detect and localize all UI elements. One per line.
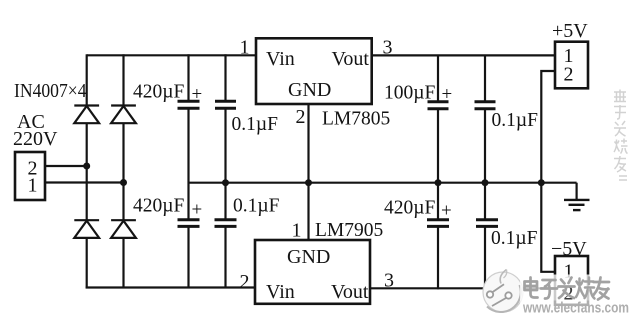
diode D1 [74, 106, 99, 124]
svg-text:0.1µF: 0.1µF [232, 114, 279, 135]
svg-text:1: 1 [240, 37, 250, 59]
svg-text:1: 1 [28, 175, 38, 197]
capacitor C5 100uF plates [428, 102, 449, 109]
wire column C6 lower [484, 227, 486, 290]
capacitor C8 0.1uF bottom-right plates [476, 220, 498, 227]
wire column C5 middle [437, 109, 439, 220]
wire column D1 middle [86, 123, 88, 221]
wire column D2 upper [122, 54, 124, 106]
svg-text:420µF: 420µF [133, 82, 184, 103]
svg-text:www.elecfans.com: www.elecfans.com [522, 300, 629, 317]
watermark chinese char you [594, 278, 610, 300]
wire column C1 middle [187, 109, 189, 220]
svg-text:100µF: 100µF [384, 83, 435, 104]
svg-text:3: 3 [384, 270, 394, 292]
wire column C1 lower [187, 227, 189, 289]
svg-text:+: + [442, 84, 453, 105]
wire top rail right [372, 54, 555, 56]
junction dot C5 / ground rail [435, 179, 442, 186]
svg-text:LM7905: LM7905 [315, 220, 383, 241]
connector J2 +5V box [555, 42, 588, 89]
svg-text:−5V: −5V [551, 238, 587, 260]
wire column C6 middle [484, 109, 486, 220]
wire bottom rail right [370, 287, 555, 289]
wire ground column to -5V pin1 [541, 183, 555, 272]
svg-text:+: + [441, 201, 452, 222]
wire GND pins column [307, 104, 309, 240]
wire column C2 upper [224, 54, 226, 101]
wire column D2 lower [122, 239, 124, 289]
connector J3 -5V box [555, 256, 588, 305]
watermark logo circle [483, 270, 523, 313]
diode D3 [74, 220, 99, 238]
svg-text:220V: 220V [13, 128, 58, 150]
svg-text:+5V: +5V [552, 20, 588, 42]
diode D4 [111, 220, 136, 238]
svg-text:Vin: Vin [266, 281, 295, 303]
watermark chinese char fa [559, 278, 575, 299]
svg-text:+: + [192, 200, 203, 221]
svg-text:3: 3 [383, 37, 393, 59]
connector J1 AC box [15, 152, 45, 200]
svg-text:Vout: Vout [332, 48, 370, 70]
capacitor C2 0.1uF top plates [215, 101, 236, 108]
svg-text:420µF: 420µF [384, 198, 435, 219]
wire column D2 middle [122, 123, 124, 221]
svg-text:Vout: Vout [331, 281, 369, 303]
wire column C2 lower [224, 227, 226, 289]
capacitor C7 420uF bottom-right plates [427, 220, 449, 227]
wire ground drop [575, 183, 577, 200]
regulator U1 LM7805 box [256, 38, 372, 104]
wire column D1 lower [86, 239, 88, 289]
wire column C5 upper [437, 55, 439, 101]
watermark text backing [520, 275, 617, 301]
svg-text:IN4007×4: IN4007×4 [14, 81, 87, 102]
svg-text:1: 1 [292, 220, 302, 242]
svg-text:LM7805: LM7805 [322, 109, 390, 130]
capacitor C3 420uF bottom plates [178, 220, 200, 227]
capacitor C4 0.1uF bottom plates [215, 220, 237, 227]
junction dot C6 / ground rail [482, 179, 489, 186]
wire AC pin1 [45, 181, 124, 183]
junction dot AC pin2 / D1 column [83, 163, 90, 170]
junction dot GND pins / ground rail [305, 179, 312, 186]
svg-text:2: 2 [564, 64, 574, 86]
wire +5V pin2 to ground column [541, 71, 555, 183]
wire column C1 upper [187, 54, 189, 101]
wire column C5 lower [437, 227, 439, 290]
watermark chinese char zi [541, 280, 557, 299]
svg-text:0.1µF: 0.1µF [491, 228, 538, 249]
svg-text:GND: GND [288, 79, 331, 101]
capacitor C6 0.1uF top-right plates [475, 102, 496, 109]
wire ground rail [189, 182, 577, 184]
wire AC pin2 [45, 165, 87, 167]
regulator U2 LM7905 box [255, 240, 370, 304]
ground symbol [564, 200, 590, 210]
diode D2 [111, 106, 136, 124]
wire top rail left [87, 54, 256, 56]
capacitor C1 420uF top plates [178, 101, 200, 108]
svg-text:2: 2 [240, 271, 250, 293]
svg-text:0.1µF: 0.1µF [492, 110, 539, 131]
svg-text:0.1µF: 0.1µF [233, 196, 280, 217]
wire column D1 upper [86, 54, 88, 106]
watermark chinese char shao [576, 278, 595, 299]
svg-text:Vin: Vin [266, 48, 295, 70]
svg-text:+: + [192, 84, 203, 105]
svg-text:420µF: 420µF [133, 196, 184, 217]
wire column C6 upper [484, 55, 486, 101]
junction dot output column / ground rail [538, 179, 545, 186]
svg-text:2: 2 [296, 106, 306, 128]
wire column C2 middle [224, 109, 226, 220]
watermark chinese char dian [525, 278, 538, 298]
watermark vertical faint text right edge [614, 90, 628, 181]
junction dot C2 / ground rail [222, 179, 229, 186]
svg-text:GND: GND [287, 246, 330, 268]
junction dot AC pin1 / D2 column [120, 179, 127, 186]
wire bottom rail left [86, 286, 255, 288]
